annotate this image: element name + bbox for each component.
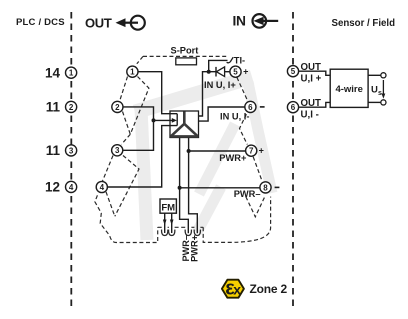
node junction circle2/3 <box>152 118 156 122</box>
wire block right lower pin to terminal 6 <box>199 107 245 121</box>
left terminal circle 4 <box>66 181 77 192</box>
svg-text:1: 1 <box>130 68 135 77</box>
svg-text:PWR+: PWR+ <box>190 235 200 262</box>
block terminal circle 1 <box>127 66 138 77</box>
svg-text:PWR–: PWR– <box>234 189 261 199</box>
svg-text:U: U <box>371 85 378 96</box>
svg-text:4: 4 <box>100 183 105 192</box>
housing notch circle6 to circle7 <box>240 114 248 144</box>
wire right5 to 4-wire box <box>299 71 331 75</box>
housing diagonal circle1 to circle2 <box>120 77 128 102</box>
wire box to supply bottom <box>368 101 381 103</box>
socket arc FM a <box>162 230 168 236</box>
svg-text:7: 7 <box>249 147 254 156</box>
socket arc FM b <box>169 230 175 236</box>
housing diagonal circle1 to notch to circle3 <box>122 77 149 145</box>
svg-text:2: 2 <box>69 103 74 112</box>
block terminal circle 8 <box>260 182 271 193</box>
svg-text:Zone 2: Zone 2 <box>250 282 288 296</box>
svg-text:8: 8 <box>263 183 268 192</box>
left terminal circle 1 <box>66 67 77 78</box>
Us arrow <box>382 80 384 96</box>
socket arc PWR plus <box>194 230 200 236</box>
IN direction icon <box>252 14 278 28</box>
socket arc PWR minus <box>185 230 191 236</box>
watermark <box>135 77 272 240</box>
svg-text:IN: IN <box>233 13 247 28</box>
svg-text:U,I -: U,I - <box>301 110 319 121</box>
right terminal circle 5 <box>287 66 298 77</box>
block terminal circle 4 <box>96 181 107 192</box>
svg-text:TI-: TI- <box>234 55 245 65</box>
housing diagonal circle3 to circle4 <box>103 156 114 182</box>
wire input bracket vertical <box>176 114 178 126</box>
housing diagonal circle5 to circle6 <box>237 77 249 103</box>
PLC/DCS boundary dashed line <box>70 12 72 308</box>
node junction PWR+ <box>187 149 191 153</box>
svg-text:12: 12 <box>45 180 60 195</box>
node diode junction <box>207 70 211 74</box>
wire diode branch to block right upper pin <box>199 72 217 116</box>
housing diagonal circle7 to circle8 <box>253 157 262 181</box>
svg-text:OUT: OUT <box>85 16 112 31</box>
wire right6 to 4-wire box <box>299 102 331 107</box>
wire arrow into block <box>154 119 173 121</box>
FM box <box>160 199 176 213</box>
svg-text:s: s <box>378 90 382 97</box>
svg-text:U,I +: U,I + <box>301 74 322 85</box>
housing notch below circle8 <box>246 195 266 217</box>
svg-text:+: + <box>243 67 248 77</box>
housing top edge <box>143 55 228 57</box>
minus sign terminal 8 <box>275 186 280 188</box>
supply terminal top <box>381 73 386 78</box>
housing diagonal circle4 to lower notch <box>106 192 115 217</box>
TI- contact tick <box>227 57 234 63</box>
isolator Y symbol <box>170 112 198 137</box>
svg-text:3: 3 <box>69 146 74 155</box>
wire block bottom pin PWR+ to terminal 7 <box>189 138 198 234</box>
housing diagonal circle3 to lower notch <box>115 156 139 217</box>
block terminal circle 7 <box>246 145 257 156</box>
svg-text:x: x <box>233 282 241 298</box>
right terminal circle 6 <box>287 102 298 113</box>
housing top-left corner diagonal <box>137 56 143 63</box>
housing left connector edge below circle4 <box>95 195 158 242</box>
svg-text:PLC / DCS: PLC / DCS <box>16 17 65 28</box>
block terminal circle 5 <box>230 66 241 77</box>
wire box to supply top <box>368 74 381 76</box>
wire circle1 to block upper-left pin <box>138 72 177 114</box>
svg-text:2: 2 <box>115 103 120 112</box>
svg-text:S-Port: S-Port <box>171 46 199 56</box>
wire TI- branch <box>209 60 228 71</box>
svg-text:5: 5 <box>291 67 296 76</box>
housing bottom right step <box>203 197 270 243</box>
4-wire sensor box <box>330 69 368 107</box>
svg-text:+: + <box>259 146 264 156</box>
svg-text:6: 6 <box>248 103 253 112</box>
isolator block U1 <box>170 111 199 138</box>
housing diagonal circle2 to notch <box>123 112 131 135</box>
minus sign terminal 6 <box>260 106 265 108</box>
svg-text:IN U, I-: IN U, I- <box>220 112 249 122</box>
svg-text:FM: FM <box>161 202 175 213</box>
S-Port connector box <box>176 58 197 65</box>
housing bottom socket edge <box>158 226 204 228</box>
svg-text:1: 1 <box>69 69 74 78</box>
svg-text:5: 5 <box>233 68 238 77</box>
wire block lower-left pin to circle4 <box>107 126 177 187</box>
svg-text:11: 11 <box>46 143 61 158</box>
Ex hexagon symbol <box>222 277 244 299</box>
svg-text:6: 6 <box>291 103 296 112</box>
supply terminal bottom <box>381 100 386 105</box>
diode D1 <box>215 67 217 77</box>
left terminal circle 3 <box>66 145 77 156</box>
housing dashed outline <box>95 56 271 242</box>
FM wire a with arrow <box>164 213 166 233</box>
svg-text:11: 11 <box>46 100 61 115</box>
wire circle2 to circle3 vertical <box>123 107 153 150</box>
OUT direction icon <box>124 16 145 30</box>
block terminal circle 6 <box>245 101 256 112</box>
svg-text:14: 14 <box>45 65 61 80</box>
svg-text:Sensor / Field: Sensor / Field <box>332 18 396 29</box>
Sensor/Field boundary dashed line <box>292 12 294 308</box>
FM wire b with arrow <box>171 213 173 233</box>
svg-text:IN U, I+: IN U, I+ <box>204 80 236 90</box>
node junction PWR- <box>178 186 182 190</box>
svg-text:4: 4 <box>69 183 74 192</box>
wire block bottom pin PWR- to terminal 8 <box>180 138 189 234</box>
block terminal circle 2 <box>112 101 123 112</box>
svg-text:4-wire: 4-wire <box>335 84 362 95</box>
svg-text:PWR+: PWR+ <box>219 153 247 163</box>
wire diode to terminal 5 <box>225 71 230 73</box>
block terminal circle 3 <box>112 145 123 156</box>
left terminal circle 2 <box>66 101 77 112</box>
svg-text:3: 3 <box>115 146 120 155</box>
